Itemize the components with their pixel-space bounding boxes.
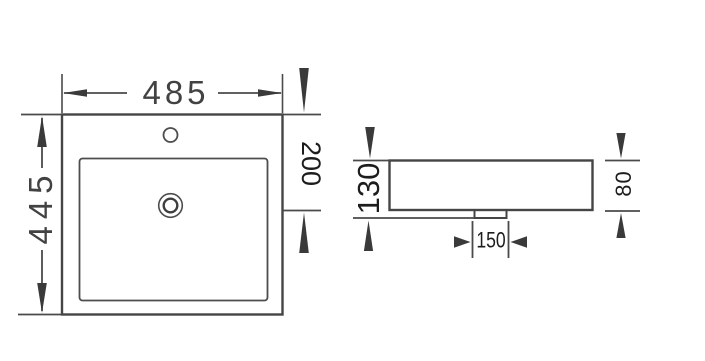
- svg-text:445: 445: [22, 168, 59, 244]
- svg-text:150: 150: [476, 229, 505, 253]
- svg-text:485: 485: [142, 74, 209, 111]
- svg-text:80: 80: [611, 170, 636, 196]
- svg-text:200: 200: [296, 141, 326, 186]
- svg-text:130: 130: [351, 163, 386, 215]
